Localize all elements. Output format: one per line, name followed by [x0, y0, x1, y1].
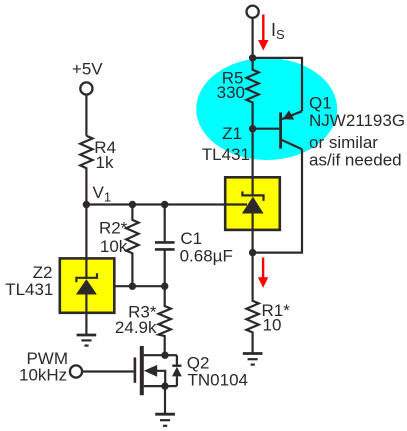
node F junction dot (Z1 anode / Q1 collector / R1)	[249, 249, 256, 256]
wire ref line (Z2 ref / R2 / C1 / R3 node)	[92, 285, 165, 287]
svg-text:10kHz: 10kHz	[19, 365, 67, 384]
svg-text:or similar: or similar	[309, 133, 378, 152]
svg-text:TN0104: TN0104	[188, 371, 248, 390]
resistor R1	[246, 253, 258, 353]
wire Q1 collector down	[253, 149, 302, 252]
junction dot C1/ref	[161, 283, 168, 290]
node B junction dot (Q1 base / Z1 cathode)	[249, 125, 256, 132]
resistor R5	[246, 58, 258, 129]
wire Q1 base	[253, 128, 280, 130]
shunt regulator Z2 TL431	[60, 205, 115, 335]
node V1 junction dot	[83, 201, 90, 208]
wire PWM to Q2 gate	[82, 370, 134, 372]
svg-text:as/if needed: as/if needed	[309, 150, 402, 169]
transistor Q2 (N-MOSFET)	[134, 346, 166, 395]
wire +5V to R4	[85, 94, 87, 136]
svg-text:Q1: Q1	[309, 94, 332, 113]
highlight ellipse around Q1	[196, 58, 337, 160]
ground (below Q2)	[155, 414, 175, 426]
svg-text:TL431: TL431	[202, 145, 250, 164]
ground (below R1)	[243, 354, 263, 365]
svg-text:+5V: +5V	[72, 59, 103, 78]
svg-text:0.68µF: 0.68µF	[180, 246, 233, 265]
transistor Q1 (PNP)	[279, 110, 302, 149]
node A junction dot	[249, 54, 256, 61]
svg-text:IS: IS	[271, 20, 285, 42]
svg-text:10: 10	[263, 315, 282, 334]
svg-text:NJW21193G: NJW21193G	[309, 111, 405, 130]
svg-text:1k: 1k	[96, 153, 114, 172]
body diode of Q2	[165, 355, 182, 386]
junction dot Q2 drain	[161, 352, 168, 359]
svg-text:Z1: Z1	[222, 124, 242, 143]
svg-text:R2*: R2*	[99, 219, 128, 238]
capacitor C1	[155, 205, 175, 287]
shunt regulator Z1 TL431	[225, 177, 280, 253]
svg-text:V1: V1	[93, 183, 112, 204]
junction dot R2/ref	[129, 283, 136, 290]
resistor R3	[159, 286, 171, 355]
wire Q2 source to ground	[164, 386, 166, 413]
terminal +5V	[80, 82, 92, 94]
node V1/C1 junction dot	[161, 201, 168, 208]
wire terminal to node A	[252, 17, 254, 58]
current arrow IS (red)	[258, 15, 268, 51]
svg-text:24.9k: 24.9k	[115, 318, 157, 337]
current arrow into R1 (red)	[258, 258, 268, 288]
node V1/R2 junction dot	[129, 201, 136, 208]
terminal IS input	[247, 6, 259, 18]
svg-text:330: 330	[217, 83, 245, 102]
ground (below Z2)	[77, 335, 97, 346]
wire node V1 horizontal	[86, 203, 247, 205]
resistor R4	[80, 136, 92, 205]
svg-text:TL431: TL431	[5, 280, 53, 299]
svg-text:10k: 10k	[100, 237, 128, 256]
wire node A to Q1 emitter column	[253, 58, 302, 111]
wire node B to Z1	[252, 129, 254, 177]
junction dot Q2 source	[161, 382, 168, 389]
terminal PWM	[70, 365, 82, 377]
resistor R2	[126, 205, 138, 287]
svg-text:C1: C1	[180, 229, 202, 248]
